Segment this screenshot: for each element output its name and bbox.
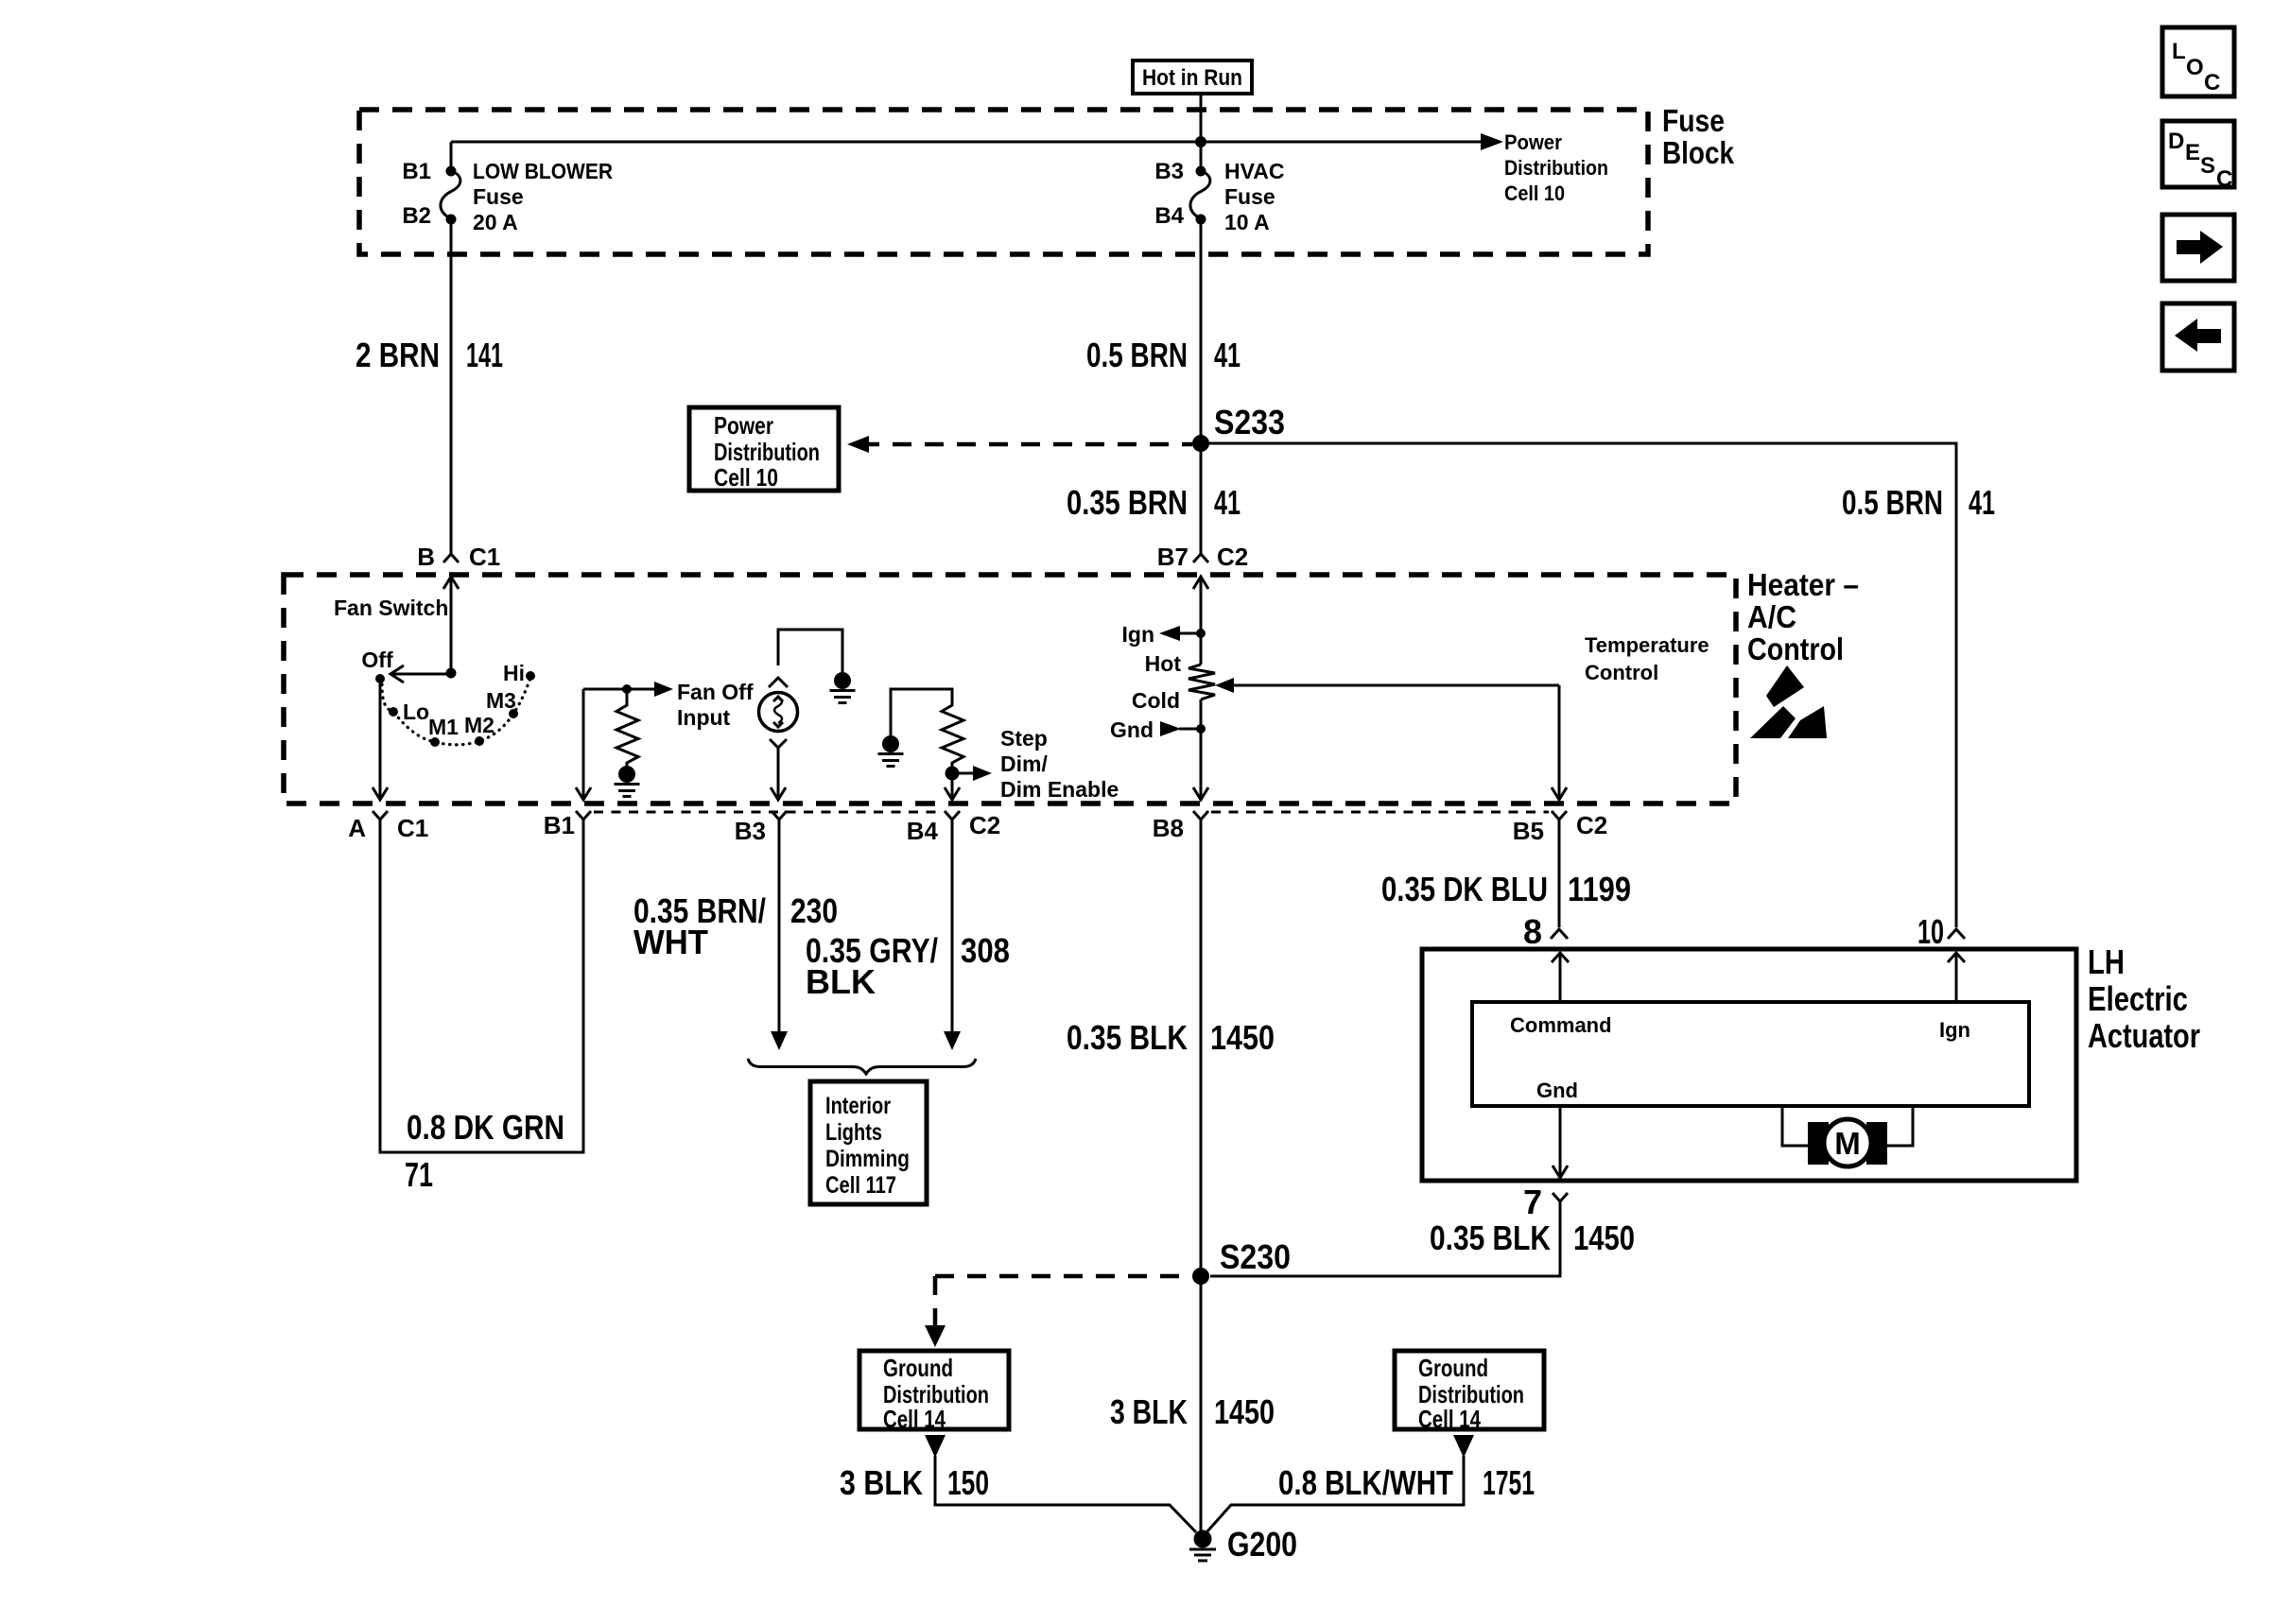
- svg-text:G200: G200: [1227, 1525, 1297, 1564]
- wire Off contact to A: [379, 683, 382, 798]
- svg-text:141: 141: [466, 336, 503, 374]
- svg-text:A/C: A/C: [1747, 599, 1796, 634]
- sidebar LOC button: [2162, 27, 2234, 96]
- wire B4 to interior lights: [951, 820, 954, 1032]
- label 0.35 BRN/WHT 230: [633, 891, 838, 961]
- svg-text:Gnd: Gnd: [1536, 1079, 1578, 1102]
- svg-text:B5: B5: [1513, 817, 1544, 845]
- svg-text:Fuse: Fuse: [473, 184, 524, 209]
- node Hot in Run: [1133, 60, 1252, 94]
- svg-text:B: B: [417, 543, 435, 571]
- fine connector lines: [594, 811, 942, 814]
- sidebar prev arrow button: [2162, 303, 2234, 371]
- svg-text:20 A: 20 A: [473, 210, 518, 234]
- svg-text:C2: C2: [1576, 811, 1607, 839]
- svg-text:2 BRN: 2 BRN: [356, 336, 440, 374]
- svg-text:B8: B8: [1153, 814, 1184, 842]
- splice S233: [1192, 435, 1209, 452]
- svg-text:C2: C2: [969, 811, 1000, 839]
- svg-text:0.8 DK GRN: 0.8 DK GRN: [407, 1108, 564, 1147]
- contact M2: [475, 736, 484, 746]
- pin 8: [1523, 912, 1568, 951]
- svg-text:1450: 1450: [1210, 1018, 1275, 1057]
- svg-text:Dim Enable: Dim Enable: [1000, 777, 1119, 802]
- svg-text:L: L: [2172, 39, 2186, 64]
- svg-text:8: 8: [1523, 912, 1542, 951]
- wire pot to B8: [1193, 700, 1208, 800]
- svg-text:0.5 BRN: 0.5 BRN: [1842, 483, 1943, 522]
- svg-text:41: 41: [1214, 336, 1241, 374]
- svg-text:Power: Power: [714, 411, 773, 440]
- sidebar DESC button: [2162, 121, 2234, 192]
- Ign tap: [1122, 622, 1206, 647]
- svg-text:Gnd: Gnd: [1110, 717, 1154, 742]
- wiper arrow: [1215, 678, 1559, 693]
- svg-text:10 A: 10 A: [1224, 210, 1270, 234]
- svg-text:41: 41: [1214, 483, 1241, 522]
- svg-text:B7: B7: [1157, 543, 1189, 571]
- svg-text:71: 71: [405, 1155, 433, 1194]
- svg-text:Ign: Ign: [1939, 1018, 1970, 1042]
- contact Lo: [389, 707, 398, 717]
- svg-text:41: 41: [1969, 483, 1995, 522]
- brace: [748, 1059, 976, 1074]
- svg-text:Actuator: Actuator: [2088, 1016, 2200, 1055]
- actuator inner module box: [1472, 1002, 2029, 1106]
- junction and arrow Step Dim: [945, 766, 992, 800]
- svg-text:Lights: Lights: [825, 1119, 882, 1146]
- svg-text:B4: B4: [907, 817, 939, 845]
- connector B7 C2: [1157, 543, 1249, 571]
- Gnd output wire: [1553, 1106, 1568, 1178]
- dashed arrow S233 to Power Distribution: [860, 442, 1192, 447]
- LH Electric Actuator outer box: [1422, 949, 2076, 1181]
- svg-text:Ground: Ground: [883, 1354, 953, 1382]
- svg-text:0.35 BRN: 0.35 BRN: [1067, 483, 1188, 522]
- svg-text:Fuse: Fuse: [1662, 103, 1725, 138]
- svg-text:A: A: [348, 814, 366, 842]
- fuse LOW BLOWER 20A: [402, 142, 613, 234]
- fuse block label: [1662, 103, 1735, 170]
- label Fan Off Input: [677, 680, 754, 730]
- svg-text:Cell 14: Cell 14: [883, 1405, 946, 1433]
- svg-text:M2: M2: [464, 713, 495, 737]
- svg-text:Cell 10: Cell 10: [1504, 181, 1565, 205]
- svg-text:3 BLK: 3 BLK: [840, 1463, 923, 1502]
- contact Off: [375, 674, 385, 683]
- svg-text:Control: Control: [1585, 661, 1658, 684]
- label Step Dim / Dim Enable: [1000, 726, 1119, 802]
- svg-text:S230: S230: [1220, 1237, 1291, 1276]
- svg-text:Control: Control: [1747, 631, 1844, 666]
- svg-text:0.5 BRN: 0.5 BRN: [1086, 336, 1188, 374]
- svg-text:O: O: [2186, 55, 2204, 80]
- node Ground Distribution Cell 14 (left): [859, 1351, 1009, 1433]
- svg-text:308: 308: [961, 931, 1010, 970]
- svg-text:S233: S233: [1214, 403, 1285, 441]
- svg-text:1450: 1450: [1214, 1392, 1275, 1431]
- connector A C1: [348, 811, 428, 842]
- svg-text:Fuse: Fuse: [1224, 184, 1275, 209]
- fan switch pivot and arm: [390, 665, 457, 682]
- label 0.35 GRY/BLK 308: [806, 931, 1010, 1001]
- svg-text:Ground: Ground: [1418, 1354, 1488, 1382]
- svg-text:Power: Power: [1504, 130, 1562, 154]
- svg-text:HVAC: HVAC: [1224, 159, 1284, 183]
- dashed arrow S230 to ground distribution: [925, 1276, 1192, 1347]
- svg-text:C1: C1: [469, 543, 500, 571]
- wire left ground box to G200: [925, 1435, 1196, 1532]
- svg-text:Hot: Hot: [1145, 651, 1182, 676]
- step dim resistor branch: [878, 689, 953, 767]
- Heater A/C Control label: [1747, 567, 1859, 666]
- svg-text:Distribution: Distribution: [1504, 156, 1608, 180]
- ground below resistor: [615, 766, 640, 797]
- svg-text:BLK: BLK: [806, 962, 876, 1001]
- svg-text:WHT: WHT: [633, 923, 708, 961]
- connector B C1 (fan switch feed): [417, 543, 500, 571]
- svg-text:B1: B1: [544, 811, 575, 839]
- sidebar next arrow button: [2162, 215, 2234, 281]
- svg-text:Cell 117: Cell 117: [825, 1172, 896, 1199]
- wire 2 BRN 141: [450, 219, 453, 554]
- svg-text:Temperature: Temperature: [1585, 633, 1709, 657]
- svg-text:Cell 10: Cell 10: [714, 463, 778, 492]
- LH Electric Actuator label: [2088, 942, 2200, 1055]
- svg-text:LH: LH: [2088, 942, 2125, 981]
- svg-text:Lo: Lo: [403, 700, 429, 724]
- svg-text:E: E: [2185, 140, 2200, 165]
- svg-text:Step: Step: [1000, 726, 1048, 751]
- svg-text:Heater –: Heater –: [1747, 567, 1859, 602]
- svg-text:Distribution: Distribution: [714, 438, 820, 466]
- lamp: [759, 693, 798, 732]
- svg-text:1751: 1751: [1483, 1463, 1535, 1502]
- svg-text:Cold: Cold: [1132, 688, 1180, 713]
- wire 7 to S230: [1210, 1201, 1560, 1276]
- ground right of lamp: [830, 672, 856, 703]
- wire 0.5 BRN 41: [1200, 219, 1203, 554]
- svg-text:Command: Command: [1510, 1013, 1612, 1037]
- svg-text:Fan Off: Fan Off: [677, 680, 754, 704]
- svg-text:B3: B3: [735, 817, 766, 845]
- temperature control feed arrow: [1193, 577, 1208, 665]
- svg-text:LOW BLOWER: LOW BLOWER: [473, 159, 613, 183]
- wire right ground box to G200: [1207, 1435, 1474, 1531]
- svg-text:M3: M3: [486, 688, 516, 713]
- svg-text:D: D: [2168, 129, 2184, 154]
- contact M3: [509, 709, 518, 718]
- svg-text:0.8 BLK/WHT: 0.8 BLK/WHT: [1278, 1463, 1453, 1502]
- svg-text:C2: C2: [1217, 543, 1248, 571]
- wire B1 branch: [576, 682, 673, 800]
- connector B5 C2: [1513, 811, 1608, 845]
- connector B4 C2: [907, 811, 1001, 845]
- Heater A/C Control dashed outline: [284, 575, 1736, 803]
- connector B3: [735, 811, 787, 845]
- wire S233 to actuator pin 10: [1201, 443, 1956, 927]
- svg-text:C: C: [2204, 70, 2220, 95]
- svg-text:C: C: [2216, 166, 2232, 192]
- svg-text:7: 7: [1523, 1183, 1542, 1221]
- svg-text:M1: M1: [428, 715, 459, 739]
- svg-text:Input: Input: [677, 705, 731, 730]
- node Power Distribution Cell 10 (middle box): [689, 407, 839, 492]
- svg-text:Interior: Interior: [825, 1093, 891, 1119]
- wire from Hot in Run to fuse B3: [1200, 94, 1203, 171]
- svg-text:0.35 BLK: 0.35 BLK: [1067, 1018, 1188, 1057]
- svg-text:Hi: Hi: [503, 661, 525, 685]
- Gnd tap: [1110, 717, 1206, 742]
- svg-text:S: S: [2200, 153, 2215, 179]
- pin 7: [1523, 1183, 1568, 1221]
- splice S230: [1192, 1268, 1209, 1285]
- label Power Distribution Cell 10 (top): [1504, 130, 1608, 205]
- wire B3 to interior lights: [778, 820, 781, 1032]
- svg-text:Off: Off: [361, 648, 393, 672]
- Ign input arrow: [1948, 953, 1965, 1002]
- svg-text:B3: B3: [1154, 159, 1184, 184]
- fan switch arrow into box: [443, 577, 459, 673]
- svg-text:B2: B2: [402, 203, 431, 229]
- wiper wire down to B5: [1552, 685, 1567, 800]
- motor M1: [1782, 1106, 1913, 1166]
- svg-text:B4: B4: [1154, 203, 1184, 229]
- svg-text:3 BLK: 3 BLK: [1110, 1392, 1188, 1431]
- svg-text:Cell 14: Cell 14: [1418, 1405, 1481, 1433]
- svg-text:Dim/: Dim/: [1000, 752, 1048, 776]
- contact M1: [430, 737, 440, 747]
- connector B1: [544, 811, 591, 839]
- wire A down and U to B1: [380, 820, 583, 1152]
- dotted switch arc: [382, 678, 530, 745]
- resistor (step dim): [942, 692, 963, 768]
- fuse HVAC 10A: [1154, 159, 1284, 234]
- wire: fuse block bus to Power Distribution: [451, 141, 1481, 144]
- svg-text:Dimming: Dimming: [825, 1146, 910, 1172]
- contact Hi: [526, 671, 535, 681]
- junction at fuse feed: [1195, 136, 1206, 147]
- svg-text:Fan Switch: Fan Switch: [334, 596, 448, 620]
- svg-text:0.35 BLK: 0.35 BLK: [1430, 1218, 1551, 1257]
- svg-text:B1: B1: [402, 159, 431, 184]
- connector B8: [1153, 811, 1208, 842]
- node Interior Lights Dimming Cell 117: [810, 1081, 927, 1204]
- svg-text:0.35 DK BLU: 0.35 DK BLU: [1381, 870, 1548, 908]
- svg-text:M: M: [1834, 1126, 1861, 1161]
- lamp top loop: [769, 630, 842, 687]
- wire B8 down to G200: [1200, 820, 1203, 1530]
- label Temperature Control: [1585, 633, 1709, 684]
- Command input arrow: [1552, 953, 1569, 1002]
- svg-text:Block: Block: [1662, 135, 1735, 170]
- svg-text:C1: C1: [397, 814, 428, 842]
- fuse block dashed outline: [359, 110, 1648, 254]
- ground G200: [1189, 1525, 1297, 1564]
- svg-text:1450: 1450: [1573, 1218, 1635, 1257]
- svg-text:Ign: Ign: [1122, 622, 1155, 647]
- potentiometer: [1189, 665, 1215, 700]
- svg-text:10: 10: [1917, 912, 1944, 951]
- ESD symbol: [1750, 665, 1827, 738]
- wire B5 to actuator pin 8: [1558, 820, 1561, 927]
- svg-text:1199: 1199: [1568, 870, 1631, 908]
- resistor (fan off): [616, 692, 638, 766]
- svg-text:Hot in Run: Hot in Run: [1142, 65, 1242, 91]
- svg-text:Electric: Electric: [2088, 979, 2188, 1018]
- lamp bottom connector and wire to B3: [770, 739, 787, 800]
- node Ground Distribution Cell 14 (right): [1395, 1351, 1544, 1433]
- svg-text:150: 150: [947, 1463, 989, 1502]
- pin 10: [1917, 912, 1965, 951]
- svg-text:230: 230: [790, 891, 838, 930]
